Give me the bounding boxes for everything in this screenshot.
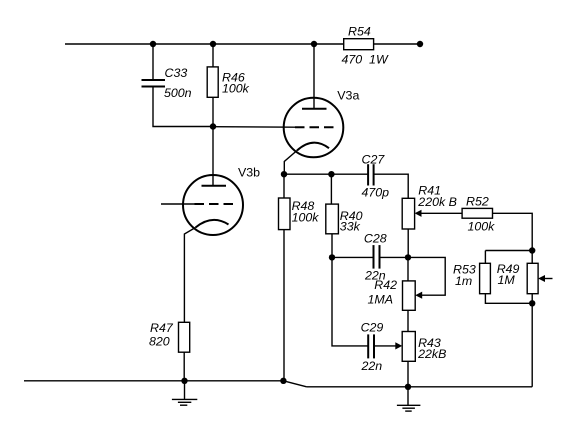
wire R41 bottom lead	[407, 229, 409, 257]
ground right	[397, 387, 421, 411]
wire top rail right of R54	[374, 43, 420, 45]
capacitor C27	[368, 164, 374, 185]
svg-text:22n: 22n	[361, 359, 383, 373]
wire R42 top lead	[407, 257, 409, 281]
node R41/R42/C28 junction	[405, 254, 411, 260]
wire cathode rail V3a to C27	[284, 173, 368, 175]
svg-text:100k: 100k	[222, 82, 250, 96]
node C28 left	[329, 254, 335, 260]
wire R49 top lead	[531, 251, 533, 264]
wire C29 right lead	[374, 345, 396, 347]
wire R46 top lead	[212, 44, 214, 67]
svg-text:1M: 1M	[498, 273, 516, 287]
resistor R52	[462, 208, 492, 218]
wire R40 top lead	[330, 174, 332, 204]
node cathode rail / R48	[281, 171, 287, 177]
svg-text:V3a: V3a	[337, 89, 359, 103]
svg-text:R54: R54	[348, 25, 371, 39]
node top rail right terminal	[417, 41, 423, 47]
R42 wiper arrow	[415, 292, 422, 299]
node bottom rail / R43 ground	[405, 384, 411, 390]
resistor R47	[179, 322, 190, 352]
svg-text:100k: 100k	[292, 211, 320, 225]
wire C33 top lead	[152, 44, 154, 80]
R41 wiper arrow	[415, 210, 422, 217]
svg-text:100k: 100k	[468, 220, 496, 234]
R43 input arrow	[395, 342, 402, 349]
wire bottom rail slope	[283, 381, 306, 387]
wire R53 bottom lead	[485, 294, 532, 304]
svg-text:R47: R47	[150, 321, 174, 335]
svg-text:1m: 1m	[455, 274, 472, 288]
capacitor C33	[142, 80, 166, 87]
svg-text:500n: 500n	[164, 86, 192, 100]
resistor R49 (pot)	[527, 263, 538, 293]
wire node to V3a grid	[213, 126, 295, 129]
resistor R53	[480, 263, 491, 293]
svg-text:V3b: V3b	[238, 166, 260, 180]
node C33/R46/V3b anode/V3a grid	[210, 123, 216, 129]
svg-text:470 1W: 470 1W	[342, 53, 389, 67]
wire C28 right lead	[380, 256, 408, 258]
wire R53/R49 top link	[485, 250, 532, 252]
wire V3b cathode lead	[184, 228, 195, 323]
node right column bottom	[529, 300, 535, 306]
wire bottom rail left	[24, 380, 283, 382]
capacitor C29	[368, 334, 374, 358]
resistor R43 (pot)	[402, 332, 415, 362]
V3a anode plate	[302, 108, 327, 110]
V3a grid (dashed)	[295, 126, 334, 128]
resistor R40	[326, 204, 339, 234]
capacitor C28	[374, 245, 380, 269]
resistor R54	[344, 39, 374, 50]
resistor R46	[207, 67, 218, 97]
svg-text:1MA: 1MA	[368, 292, 393, 306]
node top rail / C33	[150, 41, 156, 47]
V3b cathode	[196, 220, 229, 228]
wire V3b anode lead	[212, 127, 214, 186]
wire V3b grid stub	[161, 203, 195, 205]
wire C27 to R41 top	[374, 174, 409, 198]
R49 wiper arrow	[538, 275, 545, 282]
svg-text:220k B: 220k B	[417, 195, 457, 209]
node top rail / R46	[210, 41, 216, 47]
wire bottom rail right	[307, 386, 533, 388]
node bottom rail / R48	[280, 378, 286, 384]
svg-text:470p: 470p	[362, 185, 390, 199]
svg-text:C27: C27	[362, 152, 386, 166]
wire C28 left lead	[332, 256, 374, 258]
wire R49 bottom lead	[531, 294, 533, 304]
svg-text:C28: C28	[364, 232, 387, 246]
wire R53 top lead	[484, 251, 486, 264]
wire R46 bottom lead	[212, 97, 214, 126]
svg-text:820: 820	[149, 334, 170, 348]
wire top rail left of R54	[65, 43, 344, 45]
svg-text:R42: R42	[374, 278, 397, 292]
wire R48 bottom lead	[283, 230, 285, 381]
wire R52 to right column	[493, 213, 533, 250]
wire R49 wiper stub	[545, 278, 553, 280]
resistor R48	[279, 198, 291, 230]
wire R42 wiper loop	[408, 257, 445, 295]
resistor R41 (pot)	[402, 198, 414, 229]
node cathode rail / R40	[328, 171, 334, 177]
wire V3a cathode lead	[284, 151, 297, 175]
svg-text:R52: R52	[466, 195, 489, 209]
wire C33 bottom lead	[153, 87, 213, 127]
node right column top	[529, 247, 535, 253]
wire R43 bottom lead	[407, 361, 409, 387]
triode V3b envelope	[183, 175, 243, 235]
wire V3a anode lead	[313, 44, 315, 109]
wire R47 bottom lead	[183, 352, 185, 381]
wire R42 to R43 link	[407, 310, 409, 331]
svg-text:22kB: 22kB	[417, 347, 446, 361]
svg-text:33k: 33k	[340, 219, 361, 233]
svg-text:C29: C29	[361, 321, 384, 335]
svg-text:C33: C33	[165, 66, 188, 80]
wire R40 bottom lead and C29 left feed	[332, 234, 368, 346]
wire right column to bottom rail	[531, 303, 533, 387]
wire R48 top lead	[283, 174, 285, 198]
resistor R42 (pot)	[403, 281, 416, 310]
ground left	[172, 381, 197, 405]
triode V3a envelope	[284, 98, 344, 158]
wire R41 wiper to R52	[421, 212, 462, 214]
V3b anode plate	[202, 185, 227, 187]
V3b grid (dashed)	[195, 203, 234, 205]
node bottom rail / R47 ground	[181, 378, 187, 384]
node top rail / V3a anode	[311, 41, 317, 47]
V3a cathode	[297, 143, 329, 151]
